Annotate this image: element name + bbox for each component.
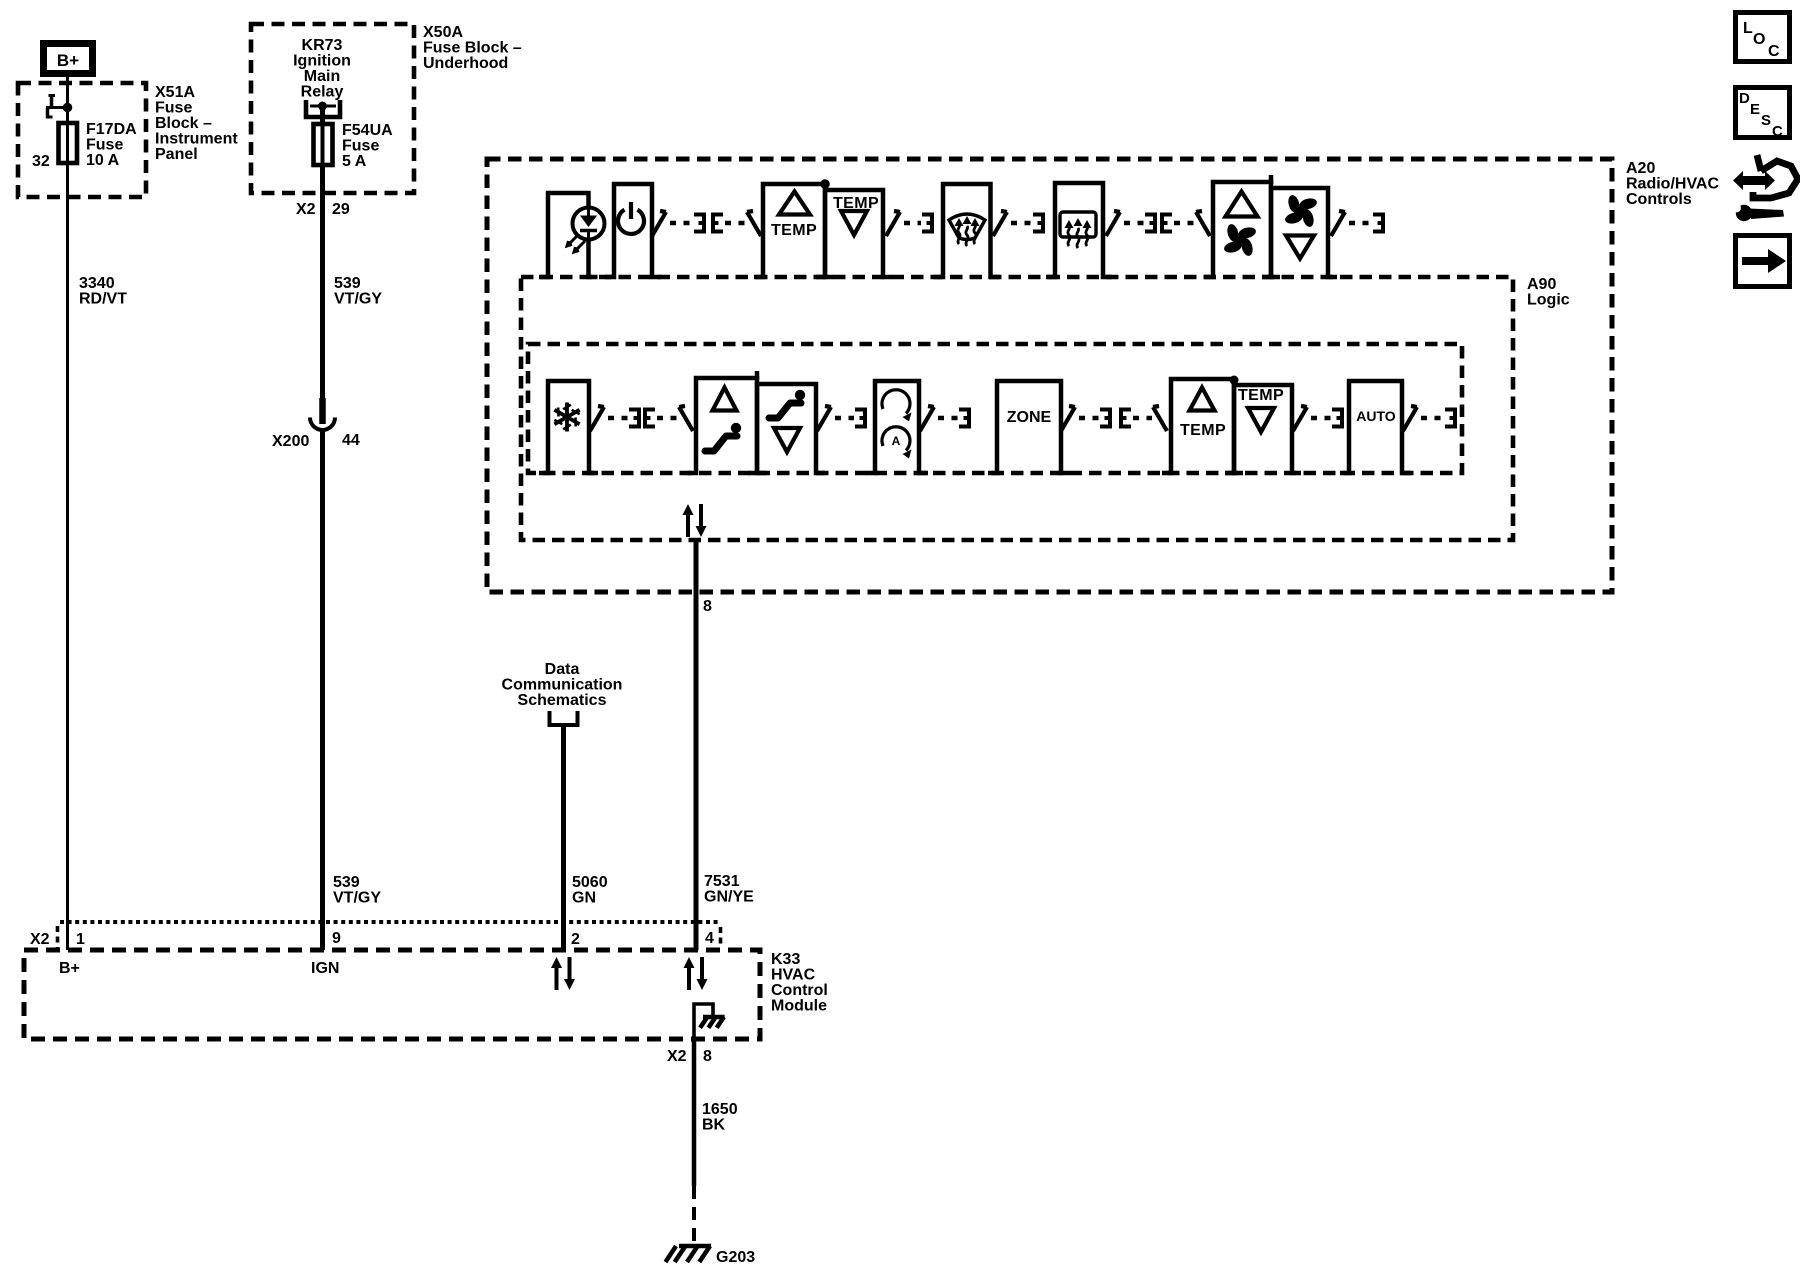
svg-text:9: 9 <box>332 930 341 947</box>
svg-text:A90: A90 <box>1527 276 1556 293</box>
button S16 AUTO <box>1340 381 1411 473</box>
actuator bracket <box>1332 410 1342 427</box>
dashed link <box>1124 221 1144 226</box>
svg-text:X2: X2 <box>667 1048 687 1065</box>
svg-text:VT/GY: VT/GY <box>333 890 381 907</box>
button S2 power <box>605 184 661 277</box>
svg-text:X51A: X51A <box>155 84 195 101</box>
wire 1650 BK <box>692 1039 697 1186</box>
dashed link <box>1079 416 1099 421</box>
svg-text:Main: Main <box>304 68 340 85</box>
label 7531 GN/YE <box>704 873 754 906</box>
inner logic dashed box <box>528 344 1462 473</box>
svg-text:Fuse: Fuse <box>155 100 192 117</box>
internal clip junction and node <box>46 95 72 118</box>
pins X2 8 <box>667 1048 712 1065</box>
svg-text:539: 539 <box>333 874 360 891</box>
svg-text:X2: X2 <box>296 201 316 218</box>
button S10 seat temp up <box>687 378 766 473</box>
internal chassis ground symbol <box>700 1017 725 1028</box>
harness connector X2 dotted line <box>60 920 718 924</box>
switch contact after S5 <box>993 211 1007 236</box>
svg-text:TEMP: TEMP <box>1180 422 1226 439</box>
dashed link <box>1011 221 1032 226</box>
label 539 VT/GY lower <box>333 874 381 907</box>
switch contact before cabin temp up <box>1153 406 1167 431</box>
svg-text:GN: GN <box>572 890 596 907</box>
svg-text:Schematics: Schematics <box>518 692 607 709</box>
svg-text:Fuse Block –: Fuse Block – <box>423 40 522 57</box>
svg-text:5060: 5060 <box>572 874 608 891</box>
svg-text:S: S <box>1761 112 1771 129</box>
serial data arrows pin 2 <box>551 957 575 990</box>
label 5060 GN <box>572 874 608 907</box>
dashed link <box>938 416 958 421</box>
switch contact before seat up <box>679 406 693 431</box>
svg-text:RD/VT: RD/VT <box>79 291 127 308</box>
actuator bracket right <box>629 410 639 427</box>
svg-text:B+: B+ <box>59 960 80 977</box>
svg-text:5 A: 5 A <box>342 153 367 170</box>
inline connector X200 pin 44 <box>272 398 360 450</box>
internal ground jog <box>694 1004 713 1039</box>
svg-text:Underhood: Underhood <box>423 55 508 72</box>
fuse block X50A dashed box <box>251 24 414 193</box>
button S5 windshield defrost <box>934 184 1000 277</box>
button S4 TEMP down <box>816 190 892 277</box>
label KR73 Ignition Main Relay <box>293 37 351 101</box>
label G203 <box>716 1249 755 1266</box>
dashed link <box>657 416 678 421</box>
actuator bracket right <box>1145 215 1155 232</box>
dashed link <box>608 416 628 421</box>
svg-text:TEMP: TEMP <box>1238 387 1284 404</box>
svg-text:A20: A20 <box>1626 160 1655 177</box>
svg-text:1: 1 <box>76 931 85 948</box>
wire 539 VT/GY lower <box>320 430 325 950</box>
dashed link <box>1349 221 1372 226</box>
actuator bracket left <box>645 410 655 427</box>
dashed link <box>1311 416 1331 421</box>
actuator bracket <box>959 410 969 427</box>
actuator bracket left <box>1121 410 1131 427</box>
dashed link <box>1133 416 1152 421</box>
dashed link <box>1421 416 1444 421</box>
switch contact after S16 <box>1403 406 1417 431</box>
actuator bracket <box>1373 215 1383 232</box>
pin 8 at A20 <box>703 598 712 615</box>
node tick between S7 S8 <box>1269 175 1274 184</box>
wire 539 through box edge <box>320 165 325 193</box>
svg-text:4: 4 <box>705 930 714 947</box>
wire 3340 RD/VT <box>66 163 69 950</box>
node dot between S3 S4 <box>820 179 830 189</box>
actuator bracket <box>1033 215 1043 232</box>
button S12 recirculation <box>866 381 928 473</box>
module K33 HVAC Control Module dashed box <box>24 950 760 1039</box>
label A90 Logic <box>1527 276 1570 309</box>
svg-text:F17DA: F17DA <box>86 121 137 138</box>
svg-text:Instrument: Instrument <box>155 131 238 148</box>
actuator bracket left <box>1162 215 1172 232</box>
actuator bracket right <box>1100 410 1110 427</box>
svg-text:8: 8 <box>703 598 712 615</box>
svg-text:E: E <box>1750 101 1760 118</box>
pin numbers 1 9 2 4 <box>76 930 714 948</box>
svg-text:Communication: Communication <box>502 677 623 694</box>
connector view icon arrows and wrench <box>1732 155 1798 221</box>
pins X2 29 <box>296 201 350 218</box>
label A20 Radio/HVAC Controls <box>1626 160 1719 208</box>
switch contact after S4 <box>886 211 900 236</box>
svg-text:X50A: X50A <box>423 24 463 41</box>
switch contact after S9 <box>590 406 604 431</box>
button S11 seat temp down <box>748 384 825 473</box>
svg-text:K33: K33 <box>771 951 800 968</box>
fuse F17DA 10A <box>59 108 78 164</box>
label 1650 BK <box>702 1101 738 1134</box>
switch contact after S8 <box>1331 211 1345 236</box>
button S6 rear defrost <box>1046 183 1112 277</box>
fuse block X51A dashed box <box>18 83 146 197</box>
actuator bracket <box>855 410 865 427</box>
svg-text:29: 29 <box>332 201 350 218</box>
dashed link <box>1174 221 1195 226</box>
label F17DA Fuse 10 A <box>86 121 137 169</box>
actuator bracket <box>922 215 932 232</box>
switch contact after S12 <box>920 406 934 431</box>
serial data arrows in A90 <box>683 504 707 537</box>
wire from B+ to fuse block <box>66 77 69 122</box>
actuator bracket <box>1445 410 1455 427</box>
svg-text:539: 539 <box>334 275 361 292</box>
node tick between S10 S11 <box>755 371 760 380</box>
svg-text:X200: X200 <box>272 433 309 450</box>
button S1 panel backlight <box>539 193 605 277</box>
off-page bracket <box>550 711 578 725</box>
DESC reference box <box>1736 88 1790 141</box>
label X50A Fuse Block Underhood <box>423 24 522 72</box>
logic block A90 dashed box <box>521 277 1513 540</box>
svg-text:G203: G203 <box>716 1249 755 1266</box>
pin 32 <box>32 153 50 170</box>
svg-text:Data: Data <box>545 661 580 678</box>
svg-text:HVAC: HVAC <box>771 967 816 984</box>
button S9 A/C snowflake <box>539 381 598 473</box>
button S15 cabin TEMP down <box>1225 385 1301 473</box>
label Data Communication Schematics <box>502 661 623 709</box>
wire 539 VT/GY upper <box>320 193 325 424</box>
node dot between S14 S15 <box>1230 376 1239 385</box>
svg-text:Module: Module <box>771 998 827 1015</box>
serial data arrows pin 4 <box>684 957 708 990</box>
svg-text:10 A: 10 A <box>86 152 120 169</box>
svg-text:C: C <box>1768 43 1780 60</box>
power feed B+ terminal <box>44 44 93 74</box>
label 539 VT/GY upper <box>334 275 382 308</box>
svg-text:KR73: KR73 <box>302 37 343 54</box>
svg-text:Radio/HVAC: Radio/HVAC <box>1626 176 1719 193</box>
button S14 cabin TEMP up <box>1162 379 1243 473</box>
svg-text:L: L <box>1743 20 1753 37</box>
ground G203 symbol <box>666 1246 712 1262</box>
svg-text:32: 32 <box>32 153 50 170</box>
actuator bracket left <box>713 215 723 232</box>
svg-text:O: O <box>1753 31 1765 48</box>
relay KR73 output bracket <box>306 100 340 117</box>
svg-text:C: C <box>1772 123 1783 140</box>
svg-text:Relay: Relay <box>301 84 344 101</box>
wire 7531 GN/YE <box>694 538 699 950</box>
svg-text:44: 44 <box>342 432 360 449</box>
label F54UA Fuse 5 A <box>342 122 393 170</box>
svg-text:B+: B+ <box>57 51 79 70</box>
dashed link <box>725 221 746 226</box>
switch contact before temp up <box>747 211 761 236</box>
svg-text:X2: X2 <box>30 931 50 948</box>
button S7 fan up <box>1204 182 1280 277</box>
button S3 TEMP up <box>754 184 834 277</box>
switch contact after S11 <box>817 406 831 431</box>
next page arrow box <box>1736 236 1790 287</box>
svg-text:Control: Control <box>771 982 828 999</box>
module A20 Radio/HVAC Controls dashed box <box>487 159 1612 592</box>
svg-text:2: 2 <box>571 931 580 948</box>
svg-text:1650: 1650 <box>702 1101 738 1118</box>
svg-text:ZONE: ZONE <box>1007 409 1052 426</box>
svg-text:F54UA: F54UA <box>342 122 393 139</box>
switch contact before fan up <box>1196 211 1210 236</box>
svg-text:3340: 3340 <box>79 275 115 292</box>
svg-text:AUTO: AUTO <box>1356 408 1396 424</box>
button S8 fan down <box>1262 188 1337 277</box>
wire 5060 GN <box>561 725 566 950</box>
svg-text:IGN: IGN <box>311 960 339 977</box>
svg-text:BK: BK <box>702 1117 726 1134</box>
X2 right tick <box>719 927 723 947</box>
svg-text:GN/YE: GN/YE <box>704 889 754 906</box>
svg-text:D: D <box>1739 90 1750 107</box>
svg-text:Fuse: Fuse <box>342 138 379 155</box>
switch contact after S15 <box>1293 406 1307 431</box>
switch contact after S13 <box>1061 406 1075 431</box>
svg-text:VT/GY: VT/GY <box>334 291 382 308</box>
svg-text:TEMP: TEMP <box>771 222 817 239</box>
svg-text:Logic: Logic <box>1527 292 1570 309</box>
svg-text:A: A <box>892 434 901 448</box>
button S13 ZONE <box>988 381 1070 473</box>
X2 left tick <box>30 926 58 950</box>
fuse F54UA 5A <box>314 106 333 165</box>
switch contact after S6 <box>1106 211 1120 236</box>
svg-text:Fuse: Fuse <box>86 137 123 154</box>
svg-text:Ignition: Ignition <box>293 53 351 70</box>
dashed wire to ground <box>692 1186 696 1246</box>
label 3340 RD/VT <box>79 275 127 308</box>
dashed link <box>904 221 921 226</box>
pin names B+ IGN <box>59 960 339 977</box>
svg-text:Panel: Panel <box>155 146 198 163</box>
svg-text:Block –: Block – <box>155 115 212 132</box>
dashed link <box>835 416 854 421</box>
svg-text:7531: 7531 <box>704 873 740 890</box>
label K33 HVAC Control Module <box>771 951 828 1015</box>
label X51A Fuse Block Instrument Panel <box>155 84 238 163</box>
switch contact after S2 <box>652 211 666 236</box>
svg-text:8: 8 <box>703 1048 712 1065</box>
svg-text:Controls: Controls <box>1626 191 1692 208</box>
LOC reference box <box>1736 13 1790 62</box>
dashed link <box>670 221 693 226</box>
actuator bracket right <box>694 215 704 232</box>
